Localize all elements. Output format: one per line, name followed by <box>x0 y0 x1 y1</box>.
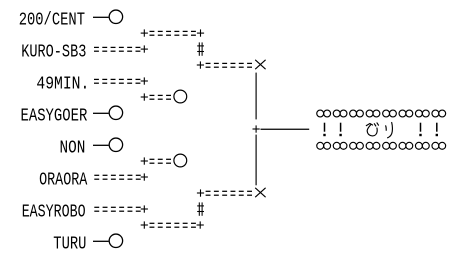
svg-text:EASYROBO: EASYROBO <box>22 201 86 222</box>
svg-text:NON: NON <box>60 137 86 158</box>
svg-text:ORAORA: ORAORA <box>39 169 88 190</box>
svg-text:EASYGOER: EASYGOER <box>21 105 88 126</box>
svg-text:200/CENT: 200/CENT <box>19 9 85 30</box>
svg-text:KURO-SB3: KURO-SB3 <box>21 41 86 62</box>
svg-text:49MIN.: 49MIN. <box>36 73 89 94</box>
svg-text:TURU: TURU <box>53 233 86 254</box>
